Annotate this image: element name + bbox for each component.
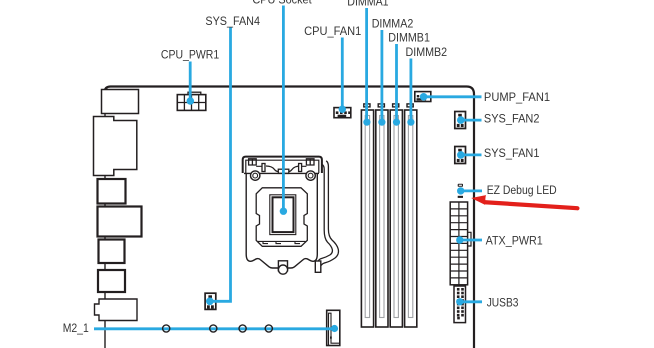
callout line CPU Socket [280,6,287,215]
EZ Debug LED component [458,184,463,198]
rear IO block 7 [95,299,138,321]
callout line M2_1 with standoff holes [94,325,338,332]
socket body top line [244,172,319,174]
svg-text:M2_1: M2_1 [63,321,89,335]
CPU_FAN1 connector [334,108,351,118]
svg-text:CPU_PWR1: CPU_PWR1 [161,48,219,62]
socket bottom circle [278,265,287,274]
socket body outline [246,173,317,268]
rear IO block 6 [98,270,125,292]
callout line SYS_FAN4 [206,28,231,306]
socket left post [262,164,265,172]
svg-text:DIMMB1: DIMMB1 [388,31,430,45]
rear IO block 1 [102,90,139,114]
red arrow pointing to EZ Debug LED [471,195,579,210]
socket left corner clip [249,159,257,165]
svg-text:JUSB3: JUSB3 [487,295,519,309]
DIMM slot B1 [390,104,402,327]
svg-text:DIMMA2: DIMMA2 [372,17,414,31]
socket top load-plate bar [243,157,322,173]
socket clip-post links [256,165,306,167]
svg-text:DIMMB2: DIMMB2 [406,45,448,59]
SYS_FAN4 connector [205,293,216,309]
rear IO block 5 [99,240,125,264]
standoff hole 2 [210,325,217,332]
svg-text:CPU_FAN1: CPU_FAN1 [304,24,361,38]
board left edge [104,89,106,348]
svg-text:CPU Socket: CPU Socket [252,0,312,7]
socket inner cover [256,188,307,247]
socket right post [299,164,302,172]
socket bottom tab [278,261,287,271]
socket lever latch tab [315,261,321,272]
svg-text:PUMP_FAN1: PUMP_FAN1 [484,90,550,104]
CPU socket U1 [243,157,339,275]
socket center clip and springs [278,169,289,173]
SYS_FAN1 connector [455,147,466,164]
CPU inner rect [273,197,294,232]
socket inner tray line [258,241,306,243]
M2 slot connector [327,310,340,345]
svg-text:SYS_FAN4: SYS_FAN4 [205,14,260,28]
svg-text:ATX_PWR1: ATX_PWR1 [486,234,543,248]
callout line DIMMB2 [407,59,414,126]
callout line JUSB3 [456,298,482,305]
callout line SYS_FAN2 [457,116,482,124]
rear IO block 2 [94,117,137,176]
callout line CPU_FAN1 [339,38,346,113]
CPU_PWR1 connector [177,92,206,110]
socket right corner clip [306,159,314,165]
callout line DIMMA1 [363,8,370,126]
ATX_PWR1 connector [450,202,471,285]
JUSB3 connector [454,286,466,323]
svg-text:SYS_FAN2: SYS_FAN2 [484,111,540,125]
board outline top and right edge [105,87,474,348]
callout line EZ Debug LED [457,187,482,194]
callout line PUMP_FAN1 [420,93,482,101]
CPU outer opening rect [270,195,296,235]
svg-text:DIMMA1: DIMMA1 [347,0,388,9]
svg-text:SYS_FAN1: SYS_FAN1 [484,146,540,160]
socket bolt ring right [306,171,315,180]
DIMM slot A2 [376,104,388,327]
rear IO block 4 [98,207,142,237]
DIMM slot A1 [361,104,373,327]
callout line CPU_PWR1 [187,62,195,105]
callout line ATX_PWR1 [456,236,482,243]
PUMP_FAN1 connector [415,92,431,102]
standoff hole 1 [163,325,170,332]
DIMM slot B2 [405,104,417,327]
callout line DIMMB1 [393,44,400,126]
callout line DIMMA2 [378,30,385,126]
rear IO block 3 [98,179,126,204]
callout line SYS_FAN1 [457,151,482,159]
svg-text:EZ Debug LED: EZ Debug LED [487,183,557,197]
standoff hole 3 [239,325,246,332]
socket lever [318,165,332,262]
SYS_FAN2 connector [455,112,466,129]
standoff hole 4 [265,325,272,332]
socket bolt ring left [251,171,260,180]
